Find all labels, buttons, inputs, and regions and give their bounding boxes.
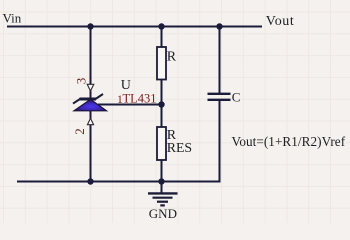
wire: left branch cathode (top pin of U1) <box>90 27 92 99</box>
wire: left branch anode (bottom pin of U1) <box>90 111 92 182</box>
resistor R RES (lower) <box>157 127 166 160</box>
junction: top rail / left branch <box>87 23 93 29</box>
wire: right branch bottom <box>219 100 221 182</box>
capacitor C <box>208 93 231 95</box>
pin 2 arrow (hollow, pointing up) <box>87 118 93 124</box>
op-amp U1 TL431 cathode bar with zener ticks <box>73 94 103 104</box>
wire: U1 reference pin to divider node <box>98 104 162 106</box>
wire: bottom rail <box>17 181 221 183</box>
svg-text:Vin: Vin <box>3 10 22 25</box>
resistor R (upper) <box>157 47 166 80</box>
svg-text:GND: GND <box>149 206 177 221</box>
svg-text:R: R <box>167 50 177 65</box>
node A junction dot (ref divider) <box>158 101 164 107</box>
wire: right branch top <box>219 27 221 94</box>
wire: between R and RES <box>161 80 163 128</box>
junction: top rail / right branch <box>216 23 222 29</box>
svg-text:C: C <box>232 90 241 105</box>
junction: top rail / middle branch <box>158 23 164 29</box>
U1 anode triangle <box>74 99 107 110</box>
svg-text:3: 3 <box>74 78 89 85</box>
ground <box>148 182 178 206</box>
junction: bottom rail / middle branch <box>158 178 164 184</box>
svg-text:2: 2 <box>72 128 87 135</box>
svg-text:RES: RES <box>167 140 192 155</box>
svg-text:TL431: TL431 <box>123 92 157 106</box>
wire: top rail Vin to Vout <box>7 26 262 28</box>
wire: middle branch top <box>161 27 163 48</box>
pin 3 arrow (hollow, pointing down) <box>87 84 94 91</box>
wire: middle branch bottom <box>161 160 163 182</box>
svg-text:Vout=(1+R1/R2)Vref: Vout=(1+R1/R2)Vref <box>232 134 346 149</box>
junction: bottom rail / left branch <box>87 178 93 184</box>
svg-text:Vout: Vout <box>266 14 295 29</box>
